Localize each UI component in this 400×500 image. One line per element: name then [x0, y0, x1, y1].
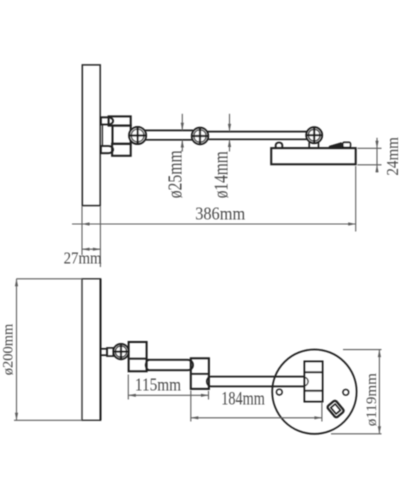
- arm tube A (plan): [147, 360, 193, 370]
- bracket top block: [109, 116, 131, 125]
- svg-text:386mm: 386mm: [195, 204, 245, 224]
- joint circle 4 (plan): [113, 344, 128, 359]
- arm tube 1 bottom line: [145, 139, 194, 141]
- joint circle 3: [306, 127, 322, 143]
- sleeve block (plan): [191, 358, 209, 389]
- swivel pin small: [101, 349, 108, 355]
- o200 extension bottom: [14, 419, 82, 421]
- svg-text:ø200mm: ø200mm: [1, 323, 17, 375]
- small bump on plate: [276, 143, 283, 149]
- svg-text:ø25mm: ø25mm: [164, 150, 186, 198]
- base circle: [272, 350, 356, 434]
- dimension o200mm line: [16, 279, 18, 421]
- svg-text:115mm: 115mm: [135, 374, 181, 394]
- dimension 24mm line with outside arrows: [376, 138, 378, 173]
- arm tube 1 (o25) top line: [145, 129, 194, 131]
- swivel pin large: [107, 348, 113, 356]
- svg-text:ø119mm: ø119mm: [364, 373, 380, 426]
- top mounting pin: [101, 117, 113, 124]
- arm tube 2 bottom line: [206, 138, 308, 140]
- arm tube 2 (o14) top line: [206, 131, 308, 133]
- joint circle 1: [129, 127, 146, 144]
- svg-text:184mm: 184mm: [221, 390, 265, 410]
- mirror side profile: [82, 65, 100, 206]
- switch (plan, rotated) outer: [327, 400, 345, 418]
- sleeve divider: [191, 373, 209, 375]
- mirror plan outline: [82, 279, 101, 421]
- dimension o119mm line: [378, 350, 380, 434]
- dimension o25mm leader: [181, 114, 183, 130]
- elbow bracket block (plan): [129, 342, 147, 371]
- dimension 184mm extension lines: [190, 391, 192, 422]
- tube B tip arc in base block: [305, 377, 308, 385]
- svg-text:24mm: 24mm: [383, 137, 400, 176]
- bracket bottom block: [112, 144, 131, 156]
- switch knob outline: [343, 142, 351, 147]
- dimension o14mm leader: [229, 114, 231, 132]
- dimension 386mm extension lines: [81, 207, 83, 256]
- tube B left cap arc: [207, 377, 211, 387]
- svg-text:ø14mm: ø14mm: [211, 151, 233, 198]
- base centre block: [305, 362, 323, 402]
- o200 extension top: [17, 278, 83, 280]
- dimension 184mm line: [191, 417, 322, 419]
- lamp plate (side view): [271, 148, 356, 164]
- screw hole right: [343, 389, 349, 395]
- dimension 115mm line: [128, 394, 208, 396]
- tube A left cap arc: [145, 360, 148, 369]
- dimension 386mm line: [72, 223, 356, 225]
- joint circle 2: [192, 128, 208, 144]
- elbow divider: [129, 358, 147, 360]
- dimension o119mm extension lines: [343, 349, 382, 351]
- dimension 24mm extension lines: [357, 147, 381, 149]
- bottom mounting pin: [101, 146, 113, 153]
- arm tube B (plan): [211, 376, 305, 378]
- switch lever (side view): [328, 143, 342, 148]
- svg-text:27mm: 27mm: [64, 249, 102, 268]
- neck below joint 3: [308, 142, 310, 148]
- mirror plan right edge emphasis: [100, 279, 102, 421]
- screw hole left: [276, 389, 282, 395]
- dimension 27mm line: [82, 248, 100, 250]
- dimension 115mm extension lines: [127, 375, 129, 400]
- bracket middle block: [113, 126, 131, 144]
- bracket backplate sliver on mirror edge: [101, 125, 103, 147]
